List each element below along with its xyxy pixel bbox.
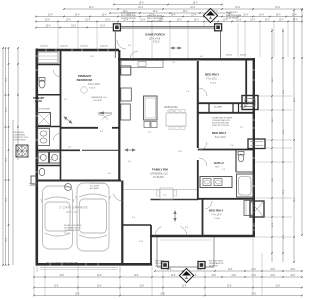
svg-text:12'-4: 12'-4 (105, 20, 110, 22)
windows on east wall (253, 69, 255, 71)
game porch: side rails (114, 31, 116, 58)
svg-text:12'-4: 12'-4 (223, 20, 228, 22)
svg-text:3050 SL: 3050 SL (226, 55, 232, 57)
wall: garage east (121, 181, 123, 265)
exterior wall: garage south (36, 263, 153, 266)
fireplace bump-out (east wall, family rm) (242, 96, 258, 110)
wall: bed rm 3 south (198, 149, 253, 151)
wall: left-strip / primary bedroom (60, 50, 62, 150)
wall: bedroom-wing west lower (197, 160, 199, 200)
wall: bed rm 4 west (202, 199, 204, 236)
detail marker A (top) (203, 8, 217, 22)
bath 2 vanity with two sinks (200, 177, 232, 188)
dimension lines: top rows (114, 4, 222, 6)
svg-text:BATH 2: BATH 2 (214, 161, 224, 165)
svg-text:12'-4: 12'-4 (100, 26, 105, 28)
wall: hall south / closet (82, 149, 119, 151)
svg-text:4 TILE SHWR: 4 TILE SHWR (39, 109, 50, 111)
wall: mud room east (150, 225, 152, 264)
svg-text:12'-4: 12'-4 (102, 15, 107, 17)
wall: laundry east (60, 150, 62, 181)
svg-text:12'-4: 12'-4 (177, 20, 182, 22)
dimension leader lines: right (258, 95, 292, 97)
svg-text:7'-0 x 10'-0: 7'-0 x 10'-0 (206, 78, 217, 81)
kitchen counter: north run with sink (121, 61, 163, 68)
svg-text:12'-4: 12'-4 (71, 26, 76, 28)
svg-text:12'-4: 12'-4 (236, 20, 241, 22)
svg-text:ROBE: ROBE (240, 107, 246, 109)
wall: primary bedroom south (west part) (61, 127, 99, 129)
wall: primary bath south (36, 126, 60, 128)
dimension ticks: top (113, 4, 115, 6)
dimension leader lines: bottom (33, 266, 35, 296)
svg-text:BUTTON UP BRK: BUTTON UP BRK (121, 18, 137, 20)
svg-text:12'-4: 12'-4 (250, 20, 255, 22)
exterior wall: south-main (150, 235, 255, 237)
windows on west wall (36, 55, 38, 57)
svg-text:BED RM 2: BED RM 2 (205, 73, 219, 77)
door: bed rm 2 (199, 88, 207, 96)
game porch: post (right) (215, 24, 222, 31)
svg-text:12'-4: 12'-4 (235, 7, 240, 9)
dimension lines: bottom rows (155, 270, 302, 272)
ceiling fan: primary bedroom (81, 87, 87, 93)
dimension ticks: left (2, 47, 4, 49)
svg-text:12'-4: 12'-4 (140, 20, 145, 22)
primary bath vanity (38, 129, 50, 146)
svg-text:1 3/8 FIRE RATED: 1 3/8 FIRE RATED (90, 182, 105, 185)
wall: primary bath north (36, 94, 60, 96)
svg-text:2-3050 SL: 2-3050 SL (100, 45, 108, 47)
wall: tub front (236, 171, 253, 173)
svg-text:DINING RM: DINING RM (164, 105, 178, 109)
svg-text:12'-4: 12'-4 (46, 26, 51, 28)
svg-text:12'-4: 12'-4 (75, 15, 80, 17)
wall: bed rm 2 east (245, 60, 247, 103)
svg-text:SIDES TYP: SIDES TYP (209, 266, 219, 268)
a/c condenser unit symbol (16, 145, 28, 157)
bed rm 4 closet (244, 201, 253, 216)
exterior wall: east (253, 58, 255, 237)
slope arrow in primary bedroom (97, 112, 104, 115)
dimension ticks: right (271, 30, 273, 32)
covered porch (south): slab edge lines (156, 237, 158, 267)
svg-text:BEDROOM: BEDROOM (77, 78, 93, 82)
laundry: washer & dryer (38, 152, 49, 163)
svg-text:2-3050 SL: 2-3050 SL (60, 45, 68, 47)
wall: laundry north (36, 149, 80, 151)
svg-text:12'-4: 12'-4 (243, 15, 248, 17)
detail marker A (bottom) (179, 268, 193, 282)
svg-text:12'-4: 12'-4 (259, 15, 264, 17)
svg-text:12'-4: 12'-4 (191, 15, 196, 17)
wall: primary bedroom south (east part) (112, 127, 119, 129)
exterior wall: north-center/right (118, 58, 253, 60)
door: left strip passage arcs (54, 70, 61, 77)
svg-text:12'-4: 12'-4 (138, 7, 143, 9)
svg-text:12'-4: 12'-4 (193, 3, 198, 5)
svg-text:12'-4: 12'-4 (183, 11, 188, 13)
car 1 (left, in garage) (41, 186, 74, 249)
svg-text:12'-4: 12'-4 (279, 20, 284, 22)
svg-text:14'-2 x 15'-8: 14'-2 x 15'-8 (88, 83, 100, 86)
wall: bath 2 south / bed rm 4 north (198, 198, 253, 200)
door arcs: porch/kitchen area (117, 40, 126, 49)
family rm floor transition line (123, 189, 197, 191)
svg-text:2% SLOPE: 2% SLOPE (155, 266, 165, 268)
svg-text:12'-4: 12'-4 (48, 15, 53, 17)
garage door panel lines (40, 267, 118, 269)
svg-text:BRICK PEDESTAL: BRICK PEDESTAL (147, 17, 164, 20)
bath 2 toilet (238, 154, 244, 162)
svg-text:2-3050 SL: 2-3050 SL (80, 45, 88, 47)
svg-text:12'-4: 12'-4 (171, 15, 176, 17)
svg-text:9'-0 PLATE: 9'-0 PLATE (153, 176, 164, 179)
svg-text:BRICK PEDESTAL: BRICK PEDESTAL (147, 20, 164, 23)
svg-text:12'-4: 12'-4 (139, 3, 144, 5)
svg-text:BUTTON UP BRK: BUTTON UP BRK (121, 15, 137, 17)
exterior wall: north-left (36, 49, 120, 51)
svg-text:2 CAR GARAGE: 2 CAR GARAGE (59, 206, 88, 210)
porch post (south-right) (198, 262, 205, 269)
door: family rm to porch (155, 227, 162, 236)
svg-text:CATHEDRAL CLG: CATHEDRAL CLG (150, 173, 168, 176)
svg-text:SUPPORT 15 PLF B.L.: SUPPORT 15 PLF B.L. (212, 125, 230, 127)
dimension leader lines: top (57, 23, 59, 49)
dimension ticks: bottom (33, 276, 35, 278)
nook furniture (160, 188, 173, 199)
svg-text:12'-4: 12'-4 (190, 7, 195, 9)
window seat bump-out (east wall) (248, 139, 265, 149)
svg-text:PEDESTAL BOTH: PEDESTAL BOTH (209, 262, 224, 265)
svg-text:9'-0 PROP: 9'-0 PROP (93, 100, 103, 102)
wall: bedroom-wing west (hall) (197, 61, 199, 148)
svg-text:ALLOWED: ALLOWED (90, 187, 99, 190)
primary bath shower (38, 113, 51, 126)
svg-text:9' CLG: 9' CLG (153, 42, 160, 44)
linen closet shelves (38, 52, 58, 63)
svg-text:12'-4: 12'-4 (265, 20, 270, 22)
svg-text:GAME PORCH: GAME PORCH (145, 33, 165, 37)
wall: laundry south (36, 165, 60, 167)
svg-text:9' CLG: 9' CLG (214, 218, 221, 220)
powder room fixtures (39, 168, 45, 175)
svg-text:12'-4: 12'-4 (293, 20, 298, 22)
svg-text:15'-4 x 9'-8: 15'-4 x 9'-8 (149, 37, 161, 40)
door: bed rm 3 (199, 142, 207, 150)
svg-text:12'-4: 12'-4 (85, 20, 90, 22)
door: primary bedroom double door (98, 115, 108, 120)
wall: closet divider 2 (232, 103, 234, 113)
side door stoop (west) (31, 176, 37, 184)
kitchen counter: along central wall (121, 88, 132, 101)
svg-text:CLOSET: CLOSET (214, 107, 223, 109)
svg-text:12'-4: 12'-4 (123, 20, 128, 22)
wall: closet/linen partition (36, 64, 60, 66)
svg-text:BRICK PEDESTAL: BRICK PEDESTAL (147, 15, 164, 18)
svg-text:12'-4: 12'-4 (276, 15, 281, 17)
wall: central (kitchen west) (118, 50, 120, 181)
wall: mud room north (122, 224, 151, 226)
svg-text:12'-4: 12'-4 (153, 11, 158, 13)
masonry bump-out (east wall, bed rm 4) (250, 201, 264, 217)
door: bed rm 4 (205, 201, 212, 209)
windows on garage south wall (49, 263, 51, 265)
svg-text:3050 SL: 3050 SL (240, 55, 246, 57)
svg-text:BED RM 4: BED RM 4 (209, 209, 223, 213)
wall: bath2/toilet partition (235, 150, 237, 172)
svg-text:12'-4: 12'-4 (89, 7, 94, 9)
wall: closet divider 3 (238, 103, 240, 113)
svg-text:12'-4: 12'-4 (194, 20, 199, 22)
bath 2 tub (237, 174, 254, 197)
svg-text:CATHEDRAL CLG: CATHEDRAL CLG (91, 96, 107, 99)
window hatches on north-left wall (45, 49, 47, 51)
svg-text:2-3050 SL: 2-3050 SL (40, 45, 48, 47)
svg-text:PWD: PWD (48, 160, 53, 162)
svg-text:9' CLG: 9' CLG (89, 88, 96, 90)
svg-text:12'-4: 12'-4 (45, 20, 50, 22)
kitchen refrigerator (121, 66, 131, 75)
svg-text:ON HIGH PROF: ON HIGH PROF (13, 140, 27, 142)
water closet (toilet) (39, 80, 45, 88)
svg-text:SECTION NO: SECTION NO (226, 12, 238, 14)
wall: closet divider 1 (208, 103, 210, 113)
wall: garage north (36, 180, 121, 182)
porch post (south-left) (162, 262, 169, 269)
smoke detector symbol (65, 184, 72, 191)
dining table (166, 113, 186, 126)
bed rm 4 window hatch (253, 223, 255, 225)
door: garage to mud (113, 194, 122, 201)
svg-text:BRICK PEDESTAL: BRICK PEDESTAL (226, 14, 243, 17)
game porch: beam/rail line (115, 26, 221, 28)
svg-text:BOTH SIDES: BOTH SIDES (226, 18, 238, 20)
svg-text:BUTTON UP BRK: BUTTON UP BRK (121, 13, 137, 15)
game porch: post (left) (113, 24, 120, 31)
svg-text:12'-4: 12'-4 (66, 20, 71, 22)
svg-text:9' CLG: 9' CLG (210, 83, 217, 85)
svg-text:BED RM 3: BED RM 3 (212, 131, 226, 135)
wall: hall south (center) (151, 199, 199, 201)
svg-text:7'-4 x 11'-0: 7'-4 x 11'-0 (211, 214, 222, 217)
svg-text:BATT/SAND: BATT/SAND (155, 260, 165, 263)
door: bath 2 (199, 158, 207, 166)
wall: closet band south (198, 112, 255, 114)
exterior wall: west (35, 49, 38, 264)
slope arrows scattered (170, 46, 182, 49)
svg-text:PORCH SLAB: PORCH SLAB (155, 262, 167, 265)
dimension lines: left columns (2, 48, 4, 265)
kitchen island (144, 96, 158, 120)
dimension lines: right columns (271, 28, 273, 262)
svg-text:12'-4: 12'-4 (292, 15, 297, 17)
svg-text:8'-4 x 10'-0: 8'-4 x 10'-0 (215, 136, 226, 139)
driveway edge lines (36, 267, 38, 273)
svg-text:FAMILY RM: FAMILY RM (152, 168, 168, 172)
dishwasher square (144, 122, 150, 128)
svg-text:12'-4: 12'-4 (275, 7, 280, 9)
wall: closet band north (198, 102, 255, 104)
car 2 (right, in garage) (76, 183, 111, 251)
